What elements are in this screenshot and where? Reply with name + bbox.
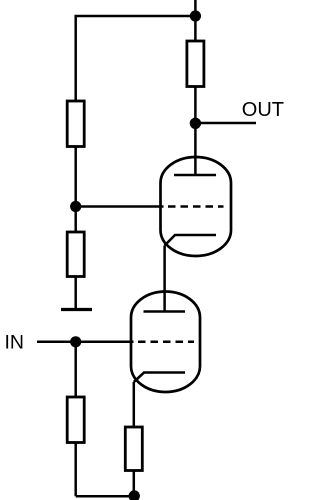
svg-text:OUT: OUT: [242, 99, 284, 121]
svg-text:IN: IN: [5, 332, 25, 354]
wire plate lead V1: [194, 123, 197, 175]
resistor R4: [67, 397, 84, 443]
tube V1 envelope: [161, 157, 232, 256]
wire V2 cathode to R5: [133, 382, 136, 427]
wire R4 to bottom rail: [74, 443, 77, 497]
node IN junction: [70, 336, 81, 347]
tube V2 grid: [138, 341, 194, 344]
wire top rail: [76, 16, 196, 101]
wire R2 to grid node: [74, 147, 77, 207]
node OUT junction: [190, 118, 201, 129]
resistor R3: [67, 232, 84, 277]
wire IN: [37, 341, 134, 344]
wire bottom rail: [76, 495, 135, 498]
resistor R2: [67, 101, 84, 147]
tube V1 cathode: [165, 235, 216, 246]
wire top dot to R1: [194, 16, 197, 41]
wire V1 grid: [76, 205, 164, 208]
node V1 grid junction: [70, 201, 81, 212]
tube V2 plate: [144, 310, 186, 313]
tube V1 plate: [174, 174, 216, 177]
wire V1 cathode to V2 plate: [163, 246, 166, 312]
wire R5 to bottom rail: [133, 471, 136, 497]
ground: [61, 308, 92, 311]
wire R3 to ground: [74, 277, 77, 310]
node bottom junction: [129, 490, 140, 500]
resistor R1: [187, 41, 204, 87]
node top junction: [190, 10, 201, 21]
tube V2 envelope: [131, 292, 200, 393]
wire B+ stub top: [194, 0, 197, 16]
tube V1 grid: [168, 205, 224, 208]
wire grid node to R3: [74, 207, 77, 233]
wire IN node to R4: [74, 342, 77, 397]
resistor R5: [125, 427, 142, 471]
wire R1 to OUT node: [194, 87, 197, 124]
tube V2 cathode: [134, 373, 185, 383]
wire OUT: [195, 122, 256, 125]
